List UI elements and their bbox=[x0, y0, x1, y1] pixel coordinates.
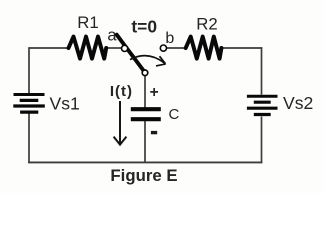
wire node b to R2 bbox=[167, 47, 187, 49]
switch pivot node bbox=[142, 70, 148, 76]
svg-text:Figure E: Figure E bbox=[110, 166, 177, 185]
node b bbox=[160, 45, 166, 51]
svg-text:I(t): I(t) bbox=[110, 83, 133, 100]
battery Vs2 bbox=[247, 96, 278, 114]
svg-text:C: C bbox=[169, 106, 180, 123]
capacitor polarity minus bbox=[151, 131, 157, 134]
current arrow I(t) bbox=[114, 101, 127, 145]
wire top-left from corner to R1 bbox=[29, 47, 69, 49]
switch motion arrow bbox=[130, 56, 166, 66]
node a bbox=[122, 45, 128, 51]
battery Vs1 bbox=[13, 95, 45, 113]
svg-text:R2: R2 bbox=[196, 15, 217, 34]
svg-text:+: + bbox=[150, 84, 159, 101]
svg-text:b: b bbox=[165, 30, 174, 47]
wire capacitor to bottom bbox=[144, 121, 146, 163]
wire bottom bbox=[28, 161, 262, 163]
wire right side lower bbox=[261, 117, 263, 164]
svg-text:Vs1: Vs1 bbox=[50, 94, 80, 114]
wire R2 to top-right corner bbox=[221, 47, 262, 49]
wire switch pivot down to capacitor bbox=[144, 74, 146, 108]
capacitor C bbox=[131, 109, 161, 119]
wire right side upper bbox=[261, 47, 263, 94]
resistor R1 bbox=[69, 37, 107, 59]
svg-text:R1: R1 bbox=[77, 13, 98, 32]
svg-text:a: a bbox=[107, 26, 117, 44]
switch blade bbox=[117, 35, 145, 73]
resistor R2 bbox=[186, 37, 222, 59]
wire left side upper bbox=[28, 47, 30, 93]
svg-text:t=0: t=0 bbox=[131, 16, 157, 36]
wire left side lower bbox=[28, 114, 30, 164]
svg-text:Vs2: Vs2 bbox=[283, 93, 313, 113]
wire R1 to node a bbox=[106, 47, 122, 49]
